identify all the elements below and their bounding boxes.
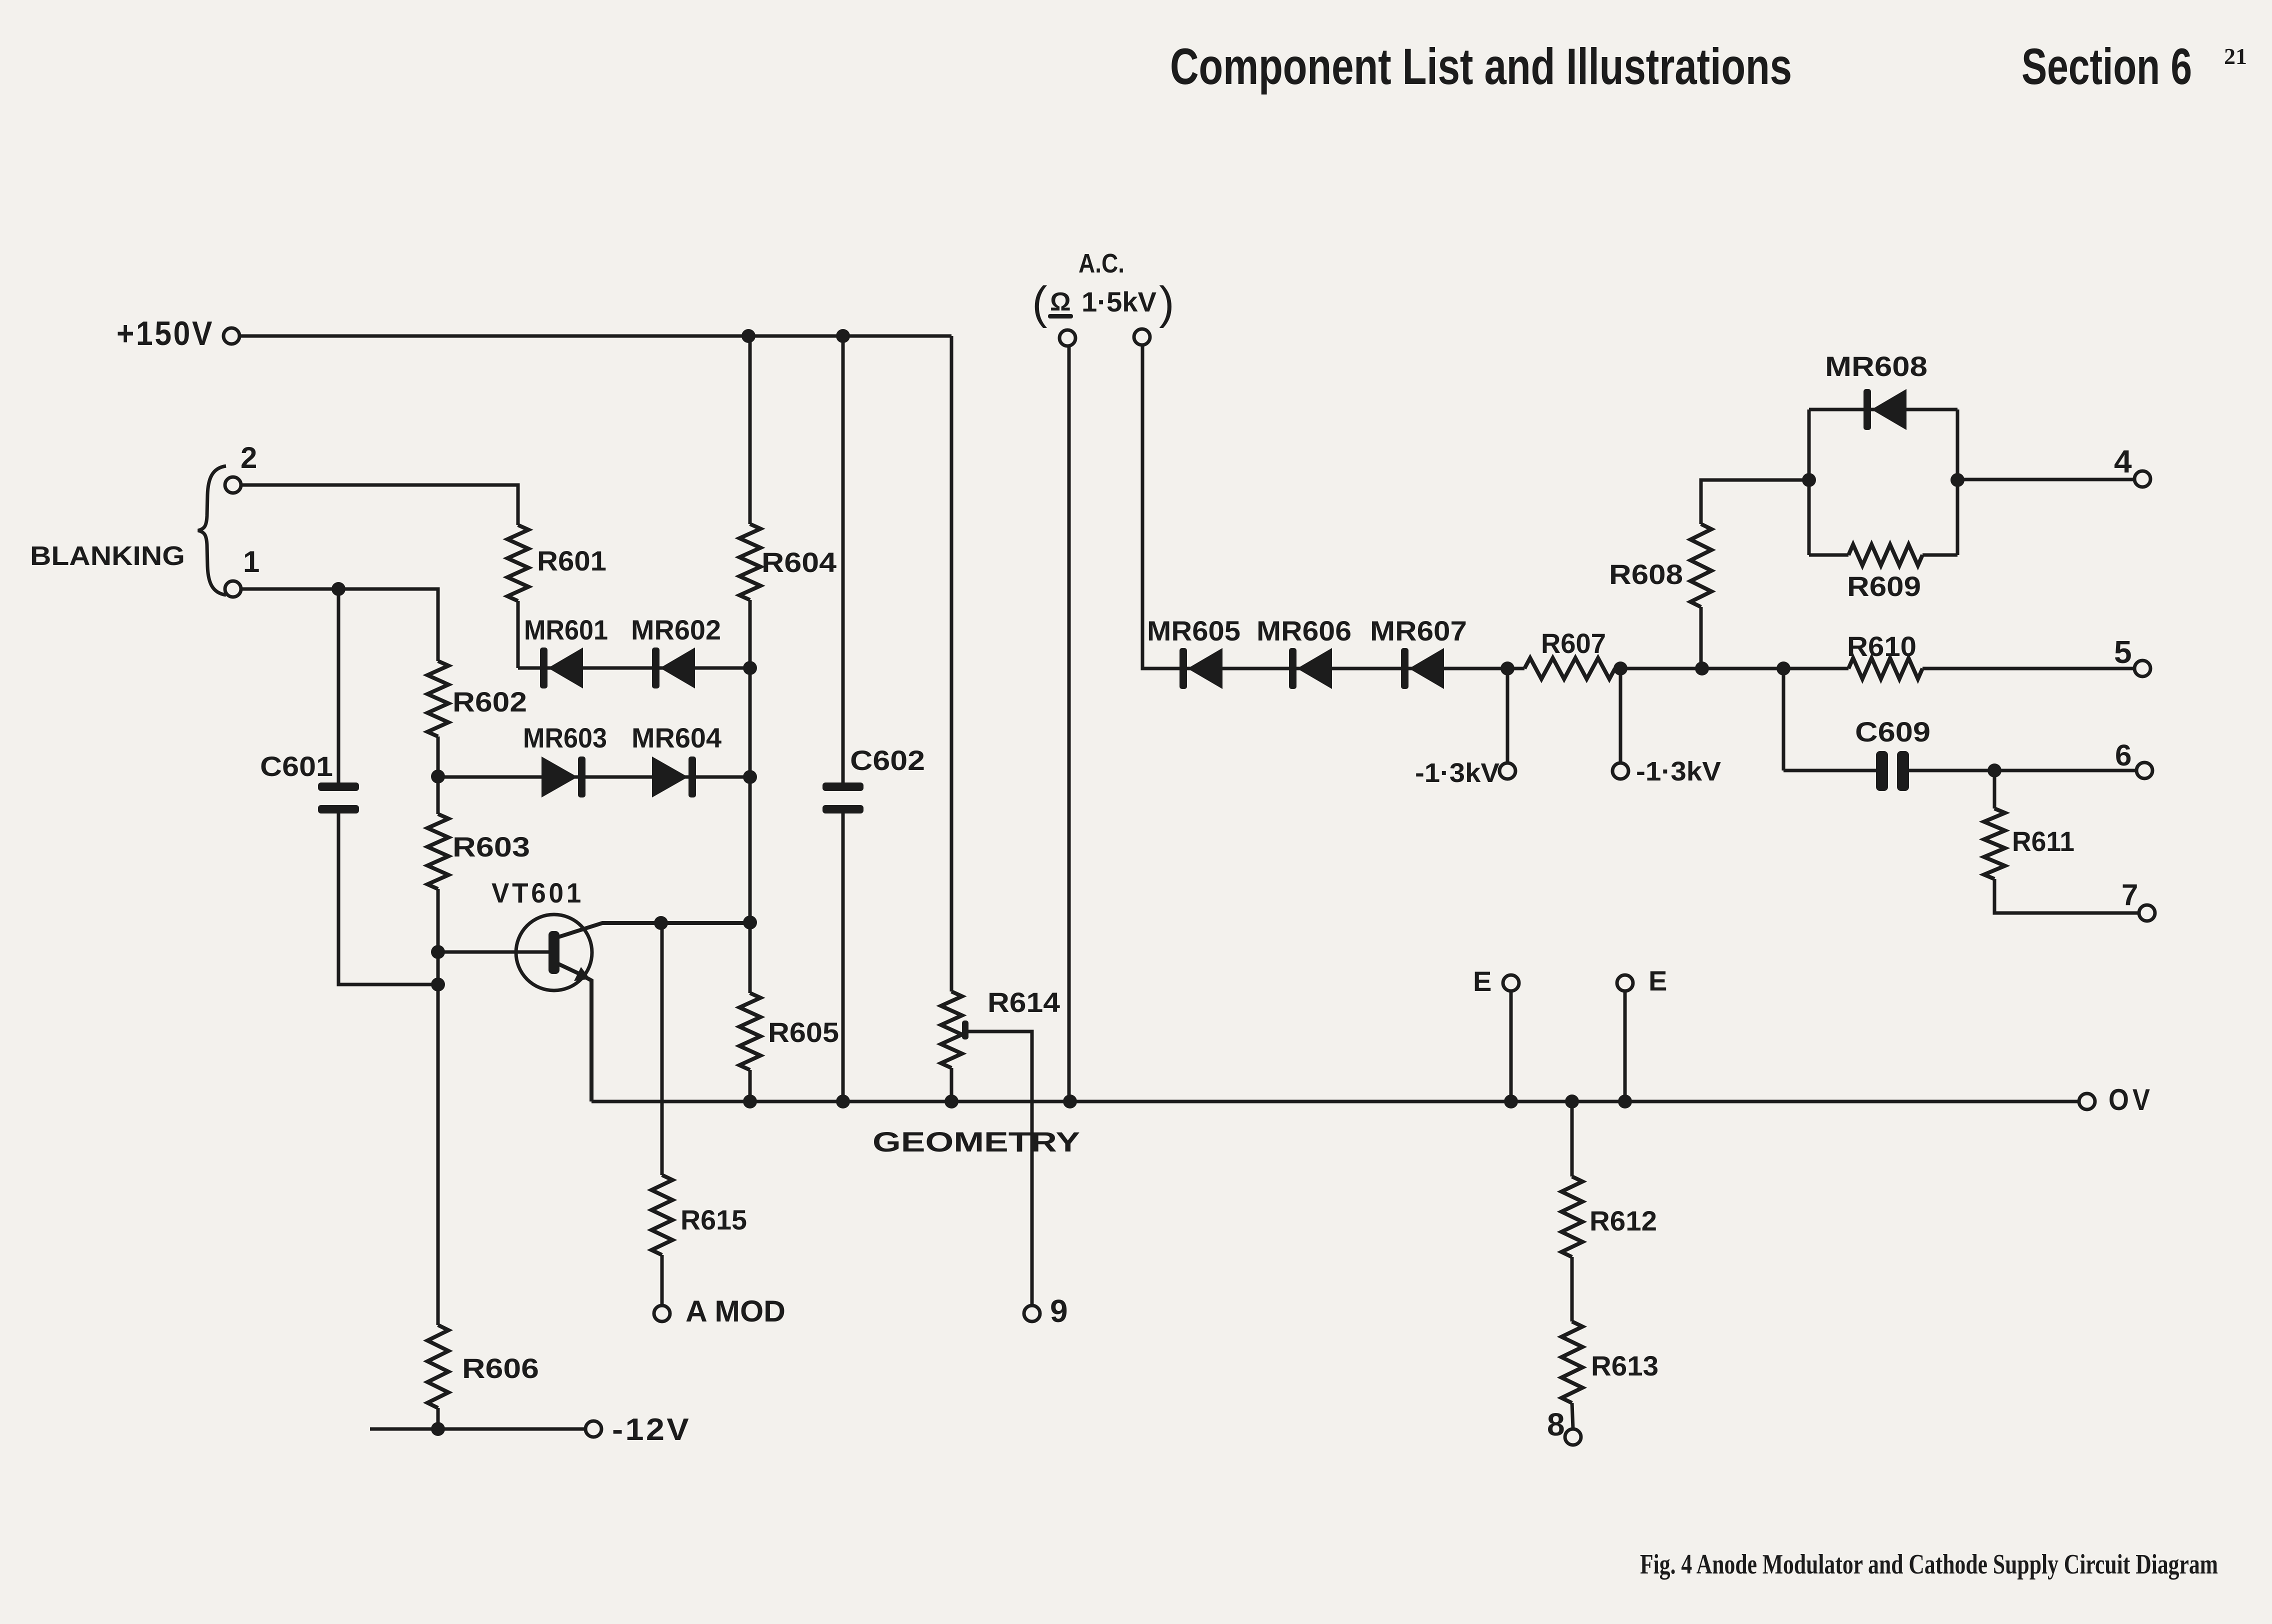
svg-text:C601: C601 <box>260 750 333 782</box>
svg-text:21: 21 <box>2224 43 2247 69</box>
svg-text:R606: R606 <box>462 1352 539 1384</box>
svg-text:): ) <box>1159 277 1174 328</box>
svg-text:R614: R614 <box>987 986 1060 1018</box>
svg-text:MR605: MR605 <box>1147 615 1240 646</box>
svg-text:R607: R607 <box>1541 627 1606 659</box>
svg-text:7: 7 <box>2121 878 2138 911</box>
svg-text:MR606: MR606 <box>1256 615 1351 646</box>
svg-text:BLANKING: BLANKING <box>30 541 185 571</box>
svg-text:VT601: VT601 <box>491 877 584 908</box>
svg-text:Ω: Ω <box>1050 287 1071 316</box>
svg-text:-1·3kV: -1·3kV <box>1415 758 1499 788</box>
svg-text:GEOMETRY: GEOMETRY <box>872 1126 1080 1157</box>
svg-text:+150V: +150V <box>116 314 214 352</box>
svg-text:R612: R612 <box>1589 1205 1657 1236</box>
svg-text:Fig. 4 Anode Modulator and Cat: Fig. 4 Anode Modulator and Cathode Suppl… <box>1640 1549 2218 1580</box>
svg-text:R608: R608 <box>1609 558 1683 590</box>
svg-text:C609: C609 <box>1855 716 1930 747</box>
svg-text:MR601: MR601 <box>524 614 608 645</box>
svg-text:9: 9 <box>1050 1293 1068 1329</box>
svg-text:2: 2 <box>240 441 257 474</box>
svg-text:MR608: MR608 <box>1825 350 1927 382</box>
svg-text:E: E <box>1648 965 1667 996</box>
svg-text:R604: R604 <box>761 546 836 578</box>
svg-text:-1·3kV: -1·3kV <box>1636 756 1721 786</box>
svg-text:E: E <box>1473 965 1491 997</box>
svg-text:1: 1 <box>243 545 259 578</box>
svg-text:C602: C602 <box>850 744 925 776</box>
svg-text:R609: R609 <box>1847 570 1921 602</box>
svg-text:MR604: MR604 <box>631 722 721 753</box>
svg-text:R611: R611 <box>2012 825 2074 857</box>
svg-text:(: ( <box>1032 277 1047 328</box>
svg-text:R602: R602 <box>452 686 527 717</box>
svg-text:R610: R610 <box>1847 630 1916 662</box>
svg-text:Section 6: Section 6 <box>2021 38 2192 95</box>
svg-text:R613: R613 <box>1591 1350 1658 1381</box>
svg-text:R615: R615 <box>680 1204 747 1235</box>
svg-text:6: 6 <box>2115 738 2131 772</box>
svg-text:MR607: MR607 <box>1370 615 1467 646</box>
svg-text:MR602: MR602 <box>631 614 721 645</box>
svg-text:MR603: MR603 <box>523 722 607 753</box>
svg-text:R605: R605 <box>768 1016 839 1048</box>
svg-text:8: 8 <box>1547 1406 1565 1442</box>
svg-text:4: 4 <box>2114 443 2132 479</box>
svg-text:-12V: -12V <box>612 1412 691 1447</box>
svg-text:A.C.: A.C. <box>1078 248 1124 278</box>
svg-text:5: 5 <box>2114 634 2132 670</box>
svg-text:R601: R601 <box>537 545 606 576</box>
svg-text:R603: R603 <box>452 831 530 862</box>
svg-text:1·5kV: 1·5kV <box>1081 286 1156 317</box>
svg-text:Component List and Illustratio: Component List and Illustrations <box>1170 38 1792 95</box>
svg-text:A MOD: A MOD <box>685 1294 785 1328</box>
svg-text:OV: OV <box>2108 1083 2153 1116</box>
